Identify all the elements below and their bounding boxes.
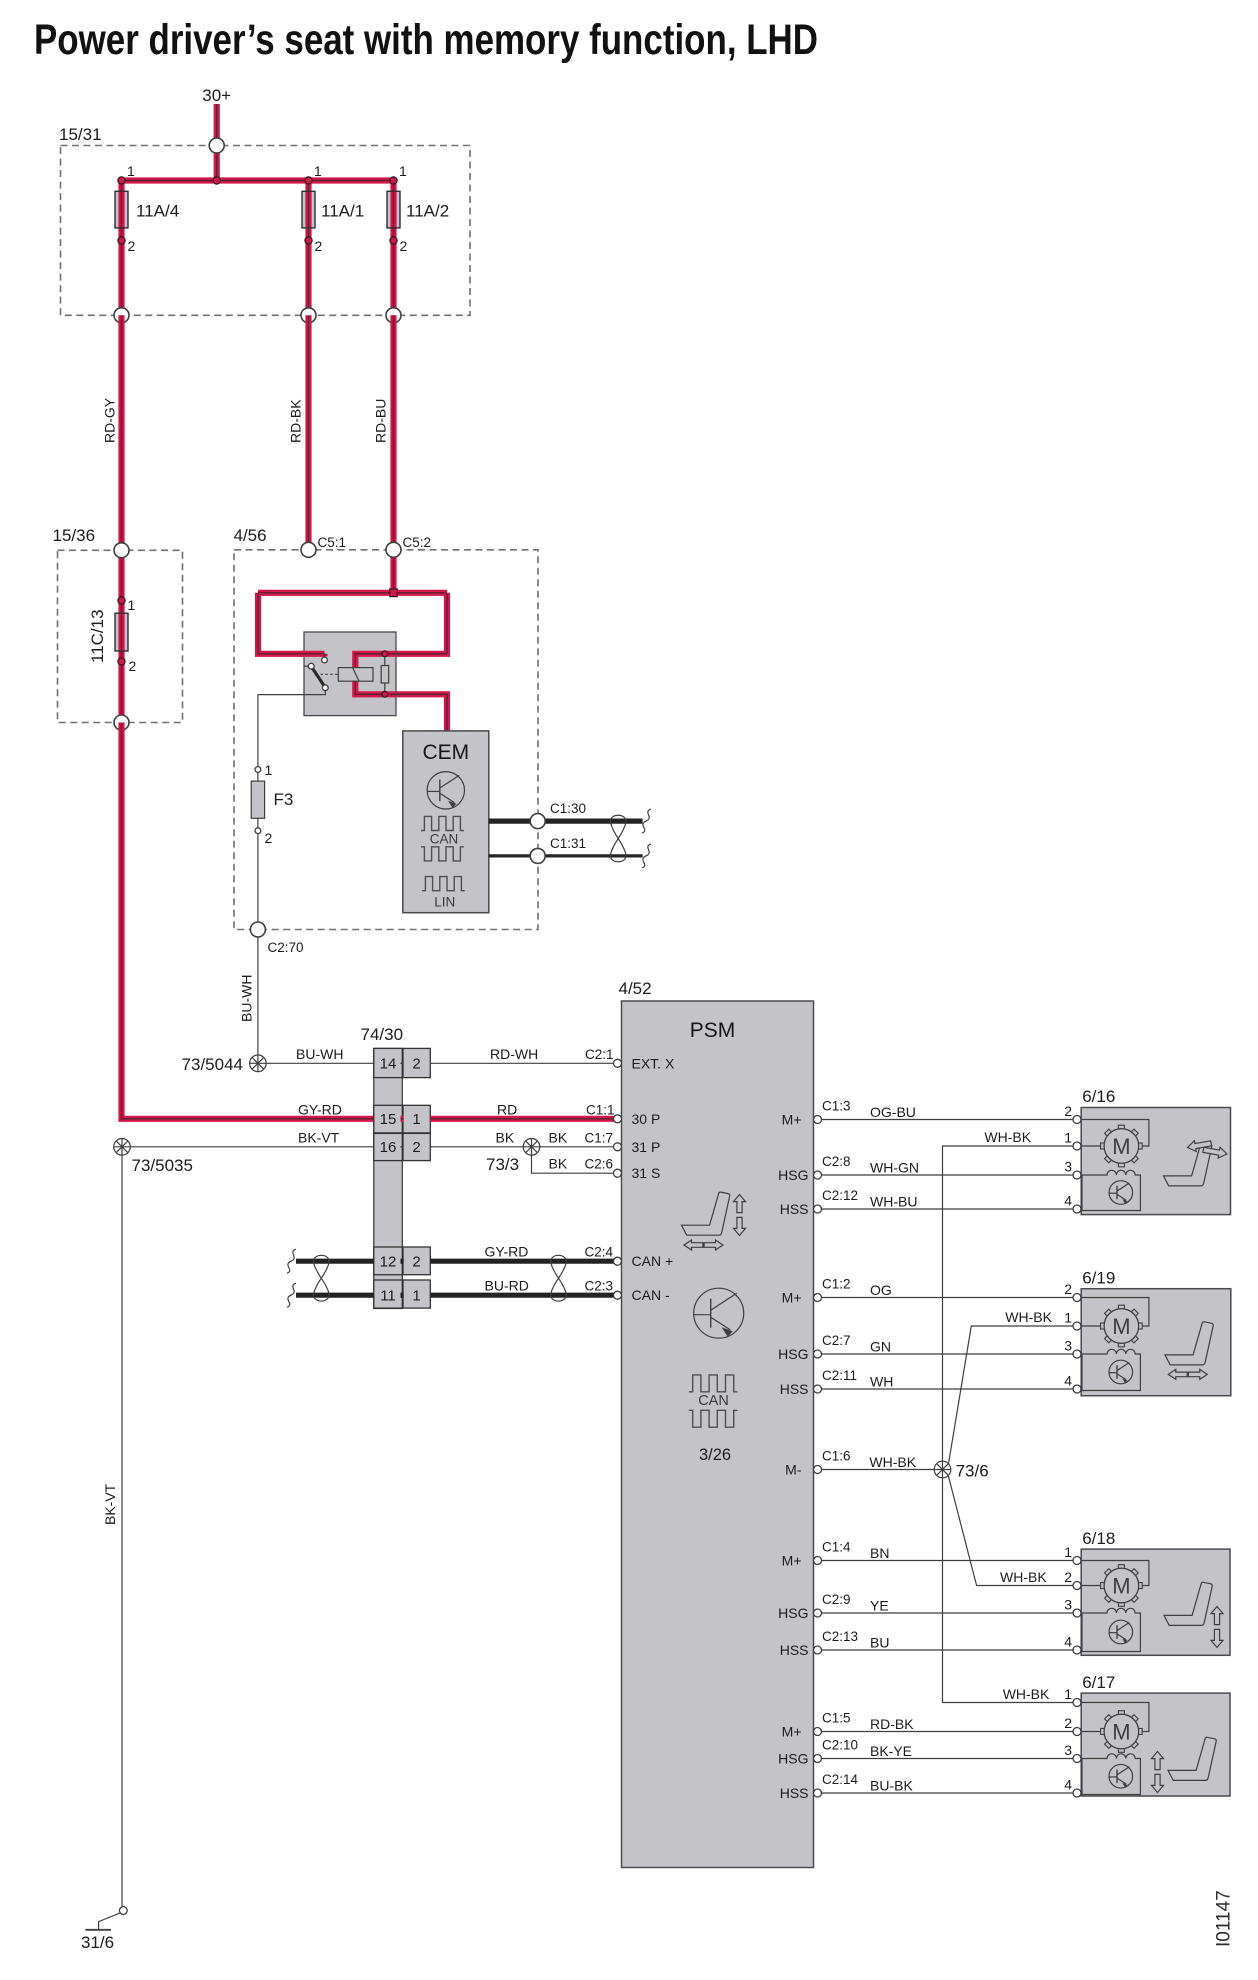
wire GN C2:7 <box>822 1333 1073 1355</box>
pin 3 of 6/17 <box>1064 1742 1081 1763</box>
svg-text:4: 4 <box>1064 1777 1072 1793</box>
svg-text:WH-GN: WH-GN <box>870 1160 919 1176</box>
twisted pair left <box>313 1255 329 1301</box>
svg-text:GY-RD: GY-RD <box>298 1101 342 1117</box>
svg-text:M-: M- <box>785 1462 802 1478</box>
svg-text:PSM: PSM <box>690 1019 736 1042</box>
wire CAN+ GY-RD <box>287 1244 615 1274</box>
wire RD-GY <box>102 315 122 550</box>
splice 73/3 <box>486 1139 540 1175</box>
svg-text:2: 2 <box>412 1056 420 1073</box>
svg-text:30 P: 30 P <box>632 1111 661 1127</box>
svg-text:C1:1: C1:1 <box>586 1102 615 1117</box>
svg-text:HSG: HSG <box>778 1346 808 1362</box>
pin 1 of 6/18 <box>1064 1544 1081 1565</box>
svg-text:C2:8: C2:8 <box>822 1154 851 1169</box>
wire WH-BK to 6/19 <box>949 1309 1074 1464</box>
svg-text:C2:14: C2:14 <box>822 1772 859 1787</box>
PSM pin M+ 1731.5 <box>782 1724 822 1740</box>
pin 3 of 6/18 <box>1064 1597 1081 1618</box>
wire BU-WH <box>239 937 258 1056</box>
wire BU C2:13 <box>822 1629 1073 1651</box>
motor 6/17 <box>1081 1703 1149 1753</box>
fuse box 15/36 <box>53 526 183 723</box>
svg-text:12: 12 <box>380 1253 397 1270</box>
motor 6/18 <box>1081 1561 1149 1607</box>
svg-text:73/5044: 73/5044 <box>182 1055 243 1074</box>
wire BK-YE C2:10 <box>822 1738 1073 1760</box>
svg-text:BU-RD: BU-RD <box>485 1278 529 1294</box>
svg-text:OG-BU: OG-BU <box>870 1104 916 1120</box>
svg-text:3: 3 <box>1064 1742 1072 1758</box>
PSM pin HSG 1175 <box>778 1167 821 1183</box>
svg-text:2: 2 <box>400 238 408 254</box>
wire 30+ feed <box>214 104 220 181</box>
seat motor 6/19 <box>1081 1269 1231 1396</box>
svg-text:HSG: HSG <box>778 1167 808 1183</box>
wire WH-BU C2:12 <box>822 1188 1073 1210</box>
node C1:30 <box>530 801 586 829</box>
relay switch <box>258 657 328 695</box>
wire M- WH-BK C1:6 <box>822 1449 935 1471</box>
wire BK-VT to ground <box>102 1155 122 1907</box>
position sensor 6/16 <box>1082 1170 1140 1210</box>
svg-text:6/18: 6/18 <box>1082 1529 1115 1548</box>
svg-text:BK-VT: BK-VT <box>102 1483 118 1525</box>
svg-text:2: 2 <box>265 830 273 846</box>
wire RD-GY through 15/36 <box>118 550 124 722</box>
svg-text:GN: GN <box>870 1339 891 1355</box>
splice 73/5044 <box>182 1055 267 1074</box>
motor 6/19 <box>1081 1298 1149 1347</box>
svg-text:2: 2 <box>129 658 137 674</box>
pin 1 of 6/19 <box>1064 1310 1081 1331</box>
wire RD-BK <box>288 315 309 550</box>
svg-text:6/19: 6/19 <box>1082 1269 1115 1288</box>
wire relay bus <box>258 590 447 596</box>
svg-text:C1:6: C1:6 <box>822 1449 851 1464</box>
PSM 3/26 <box>699 1446 731 1464</box>
svg-text:1: 1 <box>1064 1310 1072 1326</box>
seat motor 6/16 <box>1081 1087 1230 1215</box>
svg-text:BK: BK <box>549 1129 568 1145</box>
wire BN C1:4 <box>822 1540 1073 1562</box>
CEM box 4/56 <box>234 526 539 930</box>
fuse box 15/31 <box>59 125 470 315</box>
svg-text:C5:2: C5:2 <box>403 535 432 550</box>
splice 73/5035 <box>114 1139 193 1176</box>
wire RD-BU <box>373 315 394 550</box>
wire CAN high C1:30 <box>489 809 651 833</box>
svg-text:30+: 30+ <box>202 86 231 105</box>
wire RD to 30P <box>430 1101 614 1119</box>
node C5:1 <box>301 535 346 557</box>
PSM pin 31 P <box>614 1139 661 1155</box>
svg-text:4: 4 <box>1064 1373 1072 1389</box>
svg-text:1: 1 <box>1064 1544 1072 1560</box>
svg-text:31 S: 31 S <box>632 1165 661 1181</box>
wire GY-RD to PSM <box>122 723 374 1119</box>
svg-text:BU-WH: BU-WH <box>296 1046 343 1062</box>
svg-text:HSS: HSS <box>780 1785 809 1801</box>
twisted pair CEM <box>610 815 626 862</box>
node 15/31 top <box>209 138 224 153</box>
svg-text:HSS: HSS <box>780 1201 809 1217</box>
svg-text:C1:3: C1:3 <box>822 1099 851 1114</box>
node C2:70 <box>250 922 303 955</box>
PSM pin HSG 1354 <box>778 1346 821 1362</box>
pin 4 of 6/18 <box>1064 1634 1081 1655</box>
node C1:31 <box>530 836 586 863</box>
svg-text:2: 2 <box>1064 1569 1072 1585</box>
relay control dashed link <box>321 673 338 675</box>
node 15/31 out 3 <box>386 308 401 323</box>
PSM pin EXT. X <box>614 1055 675 1071</box>
svg-text:BK: BK <box>549 1156 568 1172</box>
svg-text:74/30: 74/30 <box>361 1025 404 1044</box>
ground 31/6 <box>81 1907 127 1952</box>
svg-text:31/6: 31/6 <box>81 1933 114 1952</box>
svg-text:BK-VT: BK-VT <box>298 1129 340 1145</box>
svg-text:WH-BK: WH-BK <box>1000 1569 1047 1585</box>
svg-text:1: 1 <box>1064 1686 1072 1702</box>
wire WH-BK to 6/16 <box>943 1129 1074 1461</box>
wire WH-BK to 6/18 <box>948 1476 1073 1586</box>
wire RD-WH <box>430 1046 613 1063</box>
wire relay coil loop <box>355 593 447 731</box>
svg-text:2: 2 <box>1064 1103 1072 1119</box>
svg-text:16: 16 <box>380 1139 397 1156</box>
node 15/36 top <box>114 543 129 558</box>
svg-text:2: 2 <box>128 238 136 254</box>
pin 1 of 6/17 <box>1064 1686 1081 1707</box>
wire relay feed from C5:2 <box>390 550 396 593</box>
svg-text:YE: YE <box>870 1598 889 1614</box>
wire BK-VT to 74/30 <box>130 1129 373 1147</box>
PSM pin M+ 1297.5 <box>782 1290 822 1306</box>
node C5:2 <box>386 535 431 557</box>
CEM CAN waveform <box>421 816 464 846</box>
svg-text:1: 1 <box>1064 1130 1072 1146</box>
svg-text:RD-BK: RD-BK <box>870 1716 914 1732</box>
pin 2 of 6/18 <box>1064 1569 1081 1590</box>
svg-text:C1:4: C1:4 <box>822 1540 851 1555</box>
svg-text:I01147: I01147 <box>1214 1890 1235 1947</box>
PSM transistor <box>694 1288 744 1338</box>
pin 1 of 6/16 <box>1064 1130 1081 1151</box>
svg-text:C2:9: C2:9 <box>822 1592 851 1607</box>
svg-text:2: 2 <box>1064 1281 1072 1297</box>
svg-text:2: 2 <box>412 1139 420 1156</box>
PSM pin CAN - <box>614 1287 670 1303</box>
svg-text:C2:1: C2:1 <box>585 1047 614 1062</box>
PSM pin 31 S <box>614 1165 661 1181</box>
svg-text:C2:6: C2:6 <box>585 1157 614 1172</box>
svg-text:C2:3: C2:3 <box>585 1279 614 1294</box>
PSM pin M- 1469.5 <box>785 1462 821 1478</box>
wire WH-GN C2:8 <box>822 1154 1073 1176</box>
svg-text:1: 1 <box>412 1111 420 1128</box>
svg-text:6/17: 6/17 <box>1082 1673 1115 1692</box>
svg-text:RD-BK: RD-BK <box>288 399 304 443</box>
svg-text:3: 3 <box>1064 1159 1072 1175</box>
relay 4/56 internal <box>300 632 396 716</box>
wire YE C2:9 <box>822 1592 1073 1614</box>
PSM pin CAN + <box>614 1253 674 1269</box>
pin 2 of 6/17 <box>1064 1715 1081 1736</box>
svg-text:C2:70: C2:70 <box>268 940 304 955</box>
fuse F3 <box>251 695 293 922</box>
splice 73/6 <box>934 1461 988 1480</box>
PSM CAN waveform 2 <box>689 1410 738 1427</box>
fuse 11A/2 <box>387 163 449 315</box>
svg-text:C2:11: C2:11 <box>822 1368 857 1383</box>
svg-text:C2:10: C2:10 <box>822 1738 858 1753</box>
svg-text:HSG: HSG <box>778 1605 808 1621</box>
svg-text:BK: BK <box>496 1129 515 1145</box>
svg-text:1: 1 <box>314 163 322 179</box>
svg-text:11A/2: 11A/2 <box>406 202 449 221</box>
seat motor 6/17 <box>1081 1673 1230 1796</box>
svg-text:C2:4: C2:4 <box>585 1245 614 1260</box>
svg-text:1: 1 <box>128 597 136 613</box>
svg-text:WH: WH <box>870 1374 893 1390</box>
fuse 11C/13 <box>88 597 137 674</box>
PSM pin HSS 1209 <box>780 1201 822 1217</box>
seat icon 6/17 <box>1152 1737 1217 1792</box>
svg-text:BU-WH: BU-WH <box>239 975 255 1022</box>
svg-text:RD-WH: RD-WH <box>490 1046 538 1062</box>
svg-text:EXT. X: EXT. X <box>632 1055 675 1071</box>
svg-text:WH-BU: WH-BU <box>870 1194 917 1210</box>
module PSM 4/52 <box>619 979 814 1868</box>
svg-text:BK-YE: BK-YE <box>870 1743 912 1759</box>
wire BK to 31S <box>532 1155 614 1173</box>
svg-text:2: 2 <box>412 1253 420 1270</box>
svg-text:F3: F3 <box>274 790 294 809</box>
PSM pin 30 P <box>614 1111 661 1127</box>
svg-text:4/52: 4/52 <box>619 979 652 998</box>
svg-text:C1:5: C1:5 <box>822 1711 851 1726</box>
PSM pin M+ 1119.5 <box>782 1112 822 1128</box>
svg-text:1: 1 <box>127 163 135 179</box>
pin 2 of 6/16 <box>1064 1103 1081 1124</box>
wire CAN low C1:31 <box>489 844 651 868</box>
svg-text:OG: OG <box>870 1282 892 1298</box>
relay coil <box>338 668 373 682</box>
svg-text:4/56: 4/56 <box>234 526 267 545</box>
CEM CAN waveform 2 <box>421 847 464 861</box>
PSM pin HSG 1758.5 <box>778 1751 821 1767</box>
svg-text:CAN +: CAN + <box>632 1253 674 1269</box>
svg-text:Power driver’s seat with memor: Power driver’s seat with memory function… <box>34 16 818 64</box>
wire BK to 73/3 <box>430 1129 523 1147</box>
wire BU-BK C2:14 <box>822 1772 1073 1794</box>
wire RD-BK C1:5 <box>822 1711 1073 1733</box>
pin 3 of 6/19 <box>1064 1338 1081 1359</box>
svg-text:3/26: 3/26 <box>699 1446 731 1464</box>
svg-text:73/5035: 73/5035 <box>132 1156 193 1175</box>
position sensor 6/18 <box>1082 1608 1140 1651</box>
svg-text:CAN: CAN <box>430 832 459 847</box>
svg-text:C1:30: C1:30 <box>550 801 586 816</box>
seat icon 6/19 <box>1165 1322 1213 1380</box>
svg-text:4: 4 <box>1064 1193 1072 1209</box>
svg-text:2: 2 <box>315 238 323 254</box>
svg-text:RD-BU: RD-BU <box>373 399 389 443</box>
pin 4 of 6/19 <box>1064 1373 1081 1394</box>
svg-text:31 P: 31 P <box>632 1139 661 1155</box>
PSM pin HSG 1613 <box>778 1605 821 1621</box>
PSM pin HSS 1793 <box>780 1785 822 1801</box>
svg-text:HSG: HSG <box>778 1751 808 1767</box>
svg-text:CEM: CEM <box>422 741 469 764</box>
svg-text:C1:31: C1:31 <box>550 836 586 851</box>
svg-text:WH-BK: WH-BK <box>1003 1686 1050 1702</box>
svg-text:15: 15 <box>380 1111 397 1128</box>
svg-text:CAN -: CAN - <box>632 1287 670 1303</box>
pin 2 of 6/19 <box>1064 1281 1081 1302</box>
seat icon 6/18 <box>1164 1582 1223 1647</box>
twisted pair right <box>551 1255 567 1301</box>
svg-text:15/36: 15/36 <box>53 526 96 545</box>
svg-text:C1:7: C1:7 <box>585 1130 614 1145</box>
svg-text:2: 2 <box>1064 1715 1072 1731</box>
PSM pin HSS 1650 <box>780 1642 822 1658</box>
svg-text:3: 3 <box>1064 1597 1072 1613</box>
node 30+ <box>202 86 231 105</box>
svg-text:HSS: HSS <box>780 1381 809 1397</box>
fuse 11A/4 <box>115 163 179 315</box>
svg-text:73/3: 73/3 <box>486 1155 519 1174</box>
position sensor 6/19 <box>1082 1349 1140 1390</box>
svg-text:11A/4: 11A/4 <box>136 202 179 221</box>
svg-text:6/16: 6/16 <box>1082 1087 1115 1106</box>
node 15/31 out 2 <box>301 308 316 323</box>
svg-text:1: 1 <box>265 762 273 778</box>
module CEM <box>403 731 489 913</box>
svg-text:3: 3 <box>1064 1338 1072 1354</box>
svg-text:1: 1 <box>399 163 407 179</box>
doc number I01147 <box>1214 1890 1235 1947</box>
junction 30+ bus <box>213 177 220 184</box>
wire OG-BU C1:3 <box>822 1099 1073 1121</box>
junction C5:2 square <box>390 589 398 597</box>
position sensor 6/17 <box>1082 1754 1140 1795</box>
svg-text:LIN: LIN <box>434 895 455 910</box>
wire red bus <box>122 177 394 183</box>
svg-text:GY-RD: GY-RD <box>485 1244 529 1260</box>
connector 74/30 <box>361 1025 431 1309</box>
wire BU-WH to 74/30 <box>266 1046 374 1063</box>
wire WH C2:11 <box>822 1368 1073 1390</box>
svg-text:WH-BK: WH-BK <box>984 1129 1031 1145</box>
wire OG C1:2 <box>822 1277 1073 1299</box>
svg-text:BU: BU <box>870 1635 889 1651</box>
svg-text:11A/1: 11A/1 <box>321 202 364 221</box>
PSM CAN waveform <box>689 1375 738 1409</box>
wire WH-BK to 6/17 <box>943 1478 1074 1703</box>
node 15/36 bottom <box>114 715 129 730</box>
svg-text:WH-BK: WH-BK <box>869 1454 916 1470</box>
svg-text:M+: M+ <box>782 1553 802 1569</box>
seat icon 6/16 <box>1164 1138 1228 1186</box>
PSM seat icon <box>682 1192 746 1250</box>
PSM pin M+ 1560.5 <box>782 1553 822 1569</box>
fuse 11A/1 <box>302 163 364 315</box>
svg-text:C2:7: C2:7 <box>822 1333 851 1348</box>
pin 4 of 6/16 <box>1064 1193 1081 1214</box>
CEM transistor <box>427 772 464 809</box>
svg-text:M+: M+ <box>782 1290 802 1306</box>
svg-text:HSS: HSS <box>780 1642 809 1658</box>
svg-text:RD-GY: RD-GY <box>102 397 118 443</box>
svg-text:1: 1 <box>412 1287 420 1304</box>
svg-text:M+: M+ <box>782 1724 802 1740</box>
svg-text:14: 14 <box>380 1056 397 1073</box>
svg-text:11C/13: 11C/13 <box>88 609 107 663</box>
svg-text:BU-BK: BU-BK <box>870 1778 913 1794</box>
relay resistor <box>381 651 389 697</box>
motor 6/16 <box>1081 1120 1149 1167</box>
svg-text:RD: RD <box>497 1101 517 1117</box>
svg-text:11: 11 <box>380 1287 396 1304</box>
svg-text:C1:2: C1:2 <box>822 1277 851 1292</box>
svg-text:C2:13: C2:13 <box>822 1629 858 1644</box>
svg-text:4: 4 <box>1064 1634 1072 1650</box>
wire BK to 31P <box>540 1129 614 1147</box>
wire CAN- BU-RD <box>287 1278 615 1308</box>
seat motor 6/18 <box>1081 1529 1230 1655</box>
svg-text:73/6: 73/6 <box>956 1462 989 1481</box>
wire relay switch leg <box>258 593 325 657</box>
svg-text:WH-BK: WH-BK <box>1005 1309 1052 1325</box>
svg-text:M+: M+ <box>782 1112 802 1128</box>
CEM LIN waveform <box>422 877 465 910</box>
svg-text:BN: BN <box>870 1545 889 1561</box>
pin 3 of 6/16 <box>1064 1159 1081 1180</box>
svg-text:15/31: 15/31 <box>59 125 102 144</box>
wire relay loop inside <box>355 654 396 695</box>
svg-text:C2:12: C2:12 <box>822 1188 858 1203</box>
svg-text:CAN: CAN <box>698 1393 729 1409</box>
connector pin stubs <box>401 1063 404 1295</box>
node 15/31 out 1 <box>114 308 129 323</box>
svg-text:C5:1: C5:1 <box>318 535 347 550</box>
pin 4 of 6/17 <box>1064 1777 1081 1798</box>
PSM pin HSS 1389 <box>780 1381 822 1397</box>
